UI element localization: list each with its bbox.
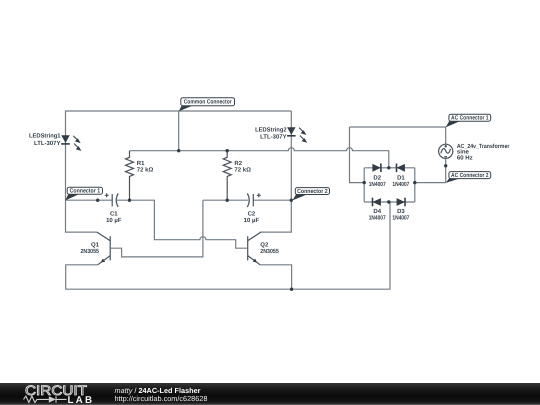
resistor R1: [126, 151, 134, 201]
diode D1: [397, 164, 405, 173]
wire base rail y=150.7 with hops to bridge top: [130, 148, 389, 168]
wire common connector vertical: [178, 111, 180, 151]
capacitor C2: [247, 193, 260, 207]
logo waveform with diode: [24, 396, 67, 403]
junction node R2 bottom: [226, 199, 229, 202]
capacitor C1: [105, 193, 119, 207]
LED LEDString1: [61, 135, 81, 151]
svg-text:D3: D3: [397, 208, 405, 215]
AC source AC_24v_Transformer: [439, 144, 453, 158]
wire Q1 base to C2 left vertical: [111, 200, 203, 257]
svg-text:D2: D2: [373, 175, 381, 182]
svg-text:LEDString2: LEDString2: [255, 126, 287, 133]
svg-text:1N4007: 1N4007: [369, 181, 387, 188]
diode D4: [373, 198, 381, 207]
svg-text:10 µF: 10 µF: [106, 217, 122, 224]
LED LEDString2: [287, 127, 307, 143]
svg-text:R2: R2: [234, 160, 242, 167]
svg-text:LEDString1: LEDString1: [29, 133, 61, 140]
wire bridge right to transformer bottom: [415, 182, 446, 184]
wire bridge rectangle right edge: [414, 168, 416, 202]
svg-text:D4: D4: [373, 208, 381, 215]
wire Q1 collector: [66, 200, 97, 232]
wire bridge rectangle bottom edge: [364, 201, 415, 203]
svg-text:LAB: LAB: [68, 395, 95, 405]
diode D3: [397, 198, 405, 207]
wire Q1 emitter to bottom rail to bridge bottom: [66, 202, 390, 289]
svg-text:2N3055: 2N3055: [81, 248, 100, 255]
svg-text:http://circuitlab.com/c628628: http://circuitlab.com/c628628: [115, 394, 208, 403]
svg-text:Connector 2: Connector 2: [297, 188, 328, 195]
wire C2 right to connector2 node: [254, 199, 292, 201]
callout Connector 1: [65, 187, 102, 200]
callout Common Connector: [179, 98, 235, 112]
footer bar: [0, 383, 540, 405]
svg-text:72 kΩ: 72 kΩ: [137, 167, 154, 174]
wire bridge rectangle top edge: [364, 167, 415, 169]
svg-text:AC Connector 1: AC Connector 1: [451, 115, 489, 122]
wire C2 left segment: [203, 199, 248, 201]
wire AC connector 1 to transformer top: [350, 127, 446, 144]
junction node bridge bottom center: [387, 200, 390, 203]
svg-text:C2: C2: [248, 211, 256, 218]
wire C1 right to Q2 base with hop: [117, 200, 247, 248]
junction node bridge left: [363, 181, 366, 184]
wire connector1 to C1: [66, 199, 113, 201]
transistor Q1: [97, 232, 110, 265]
resistor R2: [223, 151, 231, 201]
svg-text:Q1: Q1: [91, 241, 100, 248]
wire LEDString2 vertical: [290, 111, 292, 200]
junction node Q2 emitter on bottom rail: [290, 288, 293, 291]
svg-text:1N4007: 1N4007: [369, 215, 387, 222]
wire transformer bottom to AC connector 2 node: [445, 158, 447, 182]
wire Q2 emitter to bottom rail: [260, 265, 292, 289]
svg-text:AC Connector 2: AC Connector 2: [451, 172, 489, 179]
svg-text:72 kΩ: 72 kΩ: [234, 167, 251, 174]
callout AC Connector 2: [446, 172, 491, 183]
callout AC Connector 1: [446, 114, 491, 127]
wire AC feed left vertical to bridge left: [350, 127, 365, 183]
wire bridge rectangle left edge: [363, 168, 365, 202]
wire top rail from left vertical to LEDString2 drop: [66, 111, 292, 200]
svg-text:2N3055: 2N3055: [260, 248, 279, 255]
junction node transformer bottom lead: [444, 164, 447, 167]
junction node bridge right: [413, 181, 416, 184]
svg-text:10 µF: 10 µF: [244, 217, 260, 224]
svg-text:1N4007: 1N4007: [392, 181, 410, 188]
svg-text:LTL-307Y: LTL-307Y: [34, 140, 61, 147]
svg-text:Q2: Q2: [260, 241, 269, 248]
wire Q2 collector: [260, 200, 292, 232]
callout Connector 2: [292, 188, 329, 201]
svg-text:Common Connector: Common Connector: [184, 99, 233, 106]
diode D2: [372, 164, 381, 173]
transistor Q2: [248, 232, 261, 265]
junction node at C1 left: [96, 199, 99, 202]
svg-text:LTL-307Y: LTL-307Y: [260, 133, 287, 140]
junction node R2 top: [226, 149, 229, 152]
junction node common vertical on rail: [177, 149, 180, 152]
svg-text:Connector 1: Connector 1: [70, 188, 101, 195]
svg-text:D1: D1: [397, 175, 405, 182]
svg-text:C1: C1: [110, 211, 118, 218]
junction node bridge top center: [387, 166, 390, 169]
junction node connector2: [290, 199, 293, 202]
junction node R1 bottom: [128, 199, 131, 202]
svg-text:1N4007: 1N4007: [392, 215, 410, 222]
svg-text:R1: R1: [137, 160, 145, 167]
svg-text:sine: sine: [457, 149, 470, 156]
svg-text:60 Hz: 60 Hz: [457, 155, 473, 162]
